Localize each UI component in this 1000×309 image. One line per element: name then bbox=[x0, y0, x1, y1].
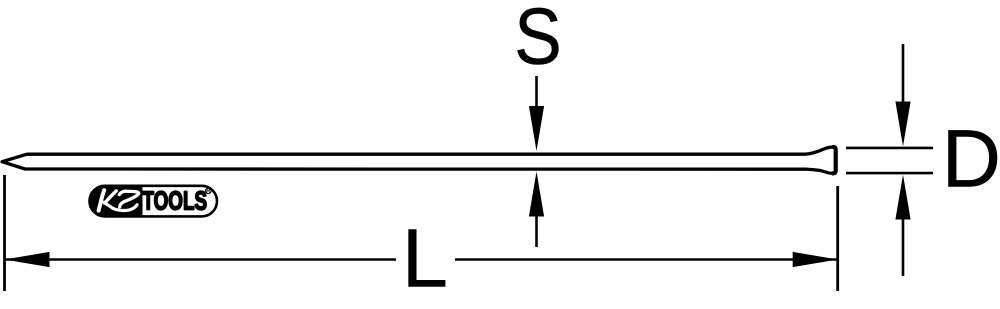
S top arrow bbox=[529, 106, 544, 151]
KS TOOLS logo capsule bbox=[88, 184, 217, 220]
D bottom arrow bbox=[895, 175, 910, 220]
svg-text:L: L bbox=[402, 212, 448, 305]
L dimension line right segment bbox=[455, 258, 838, 261]
S bottom arrow bbox=[529, 172, 544, 217]
S bottom leader line bbox=[535, 215, 538, 247]
logo black left field bbox=[88, 184, 143, 220]
pry bar end cap (thicker) bbox=[833, 147, 836, 173]
svg-text:TOOLS: TOOLS bbox=[143, 187, 208, 215]
svg-text:S: S bbox=[514, 0, 562, 81]
svg-text:R: R bbox=[206, 189, 211, 195]
L left arrow bbox=[5, 252, 50, 267]
L right arrow bbox=[793, 252, 838, 267]
svg-text:D: D bbox=[942, 113, 1000, 204]
logo registered mark bbox=[206, 188, 212, 194]
D extension line top bbox=[846, 147, 933, 150]
D extension line bottom bbox=[846, 172, 933, 175]
S top leader line bbox=[535, 76, 538, 108]
D top arrow bbox=[895, 102, 910, 147]
L right extension line bbox=[836, 186, 839, 291]
pry bar body bbox=[2, 147, 836, 173]
L dimension line left segment bbox=[5, 258, 397, 261]
D bottom leader line bbox=[902, 218, 905, 276]
D top leader line bbox=[902, 44, 905, 103]
logo KS script bbox=[99, 190, 139, 210]
L left extension line bbox=[3, 175, 6, 291]
